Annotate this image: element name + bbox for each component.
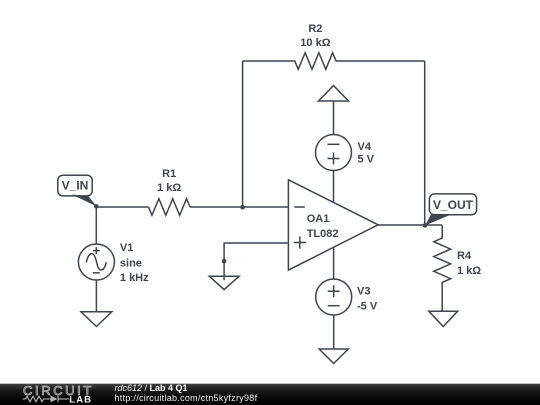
voltage source V4 bbox=[316, 135, 375, 171]
svg-text:R4: R4 bbox=[457, 250, 472, 262]
wire V1 to ground bbox=[95, 280, 97, 312]
svg-text:sine: sine bbox=[120, 257, 142, 269]
wire R1 to op-amp inverting input bbox=[190, 206, 288, 208]
svg-text:1 kHz: 1 kHz bbox=[120, 272, 149, 284]
voltage source V1 sine bbox=[78, 242, 149, 284]
svg-text:R2: R2 bbox=[308, 23, 322, 35]
svg-text:1 kΩ: 1 kΩ bbox=[457, 265, 481, 277]
ground at non-inverting input bbox=[209, 276, 239, 289]
svg-text:10 kΩ: 10 kΩ bbox=[300, 37, 330, 49]
node V_IN flag bbox=[58, 175, 97, 206]
wire op-amp V- pin to V3 bbox=[333, 247, 335, 279]
ground below V1 bbox=[81, 312, 112, 327]
junction dot feedback/inverting input bbox=[240, 205, 245, 210]
svg-text:LAB: LAB bbox=[69, 394, 92, 405]
svg-text:5 V: 5 V bbox=[358, 154, 375, 166]
junction dot on ground wire bbox=[222, 259, 227, 264]
junction dot V_IN node bbox=[94, 204, 99, 209]
wire op-amp V+ pin to V4 bbox=[333, 171, 335, 203]
wire feedback right vertical bbox=[424, 61, 426, 225]
resistor R1 bbox=[149, 168, 191, 215]
svg-text:V3: V3 bbox=[357, 285, 370, 297]
ground below R4 bbox=[429, 311, 458, 326]
wire V3 to ground bbox=[333, 315, 335, 349]
resistor R2 bbox=[243, 23, 425, 70]
op-amp OA1 TL082 bbox=[288, 180, 378, 270]
svg-text:V_OUT: V_OUT bbox=[433, 198, 474, 212]
svg-text:V_IN: V_IN bbox=[62, 178, 89, 192]
footer bar bbox=[0, 383, 540, 384]
wire V_IN node down to V1 bbox=[95, 207, 97, 244]
wire op-amp non-inverting input bbox=[224, 243, 288, 280]
wire input horizontal bbox=[96, 206, 148, 208]
wire feedback top-left vertical bbox=[242, 61, 244, 207]
footer title text bbox=[115, 384, 258, 404]
svg-text:V4: V4 bbox=[358, 141, 372, 153]
CircuitLab logo bbox=[0, 378, 110, 405]
svg-text:TL082: TL082 bbox=[307, 228, 339, 240]
svg-text:V1: V1 bbox=[120, 242, 133, 254]
svg-text:-5 V: -5 V bbox=[357, 301, 378, 313]
svg-text:R1: R1 bbox=[162, 168, 176, 180]
wire V4 to VCC arrow bbox=[333, 101, 335, 135]
resistor R4 bbox=[434, 225, 481, 311]
node V_OUT flag bbox=[425, 194, 476, 226]
svg-text:OA1: OA1 bbox=[307, 213, 330, 225]
junction dot output node bbox=[423, 223, 428, 228]
voltage source V3 bbox=[316, 279, 378, 315]
power supply arrow VCC bbox=[319, 86, 349, 102]
svg-text:1 kΩ: 1 kΩ bbox=[157, 182, 181, 194]
ground below V3 bbox=[319, 349, 348, 364]
wire op-amp output bbox=[378, 224, 442, 226]
